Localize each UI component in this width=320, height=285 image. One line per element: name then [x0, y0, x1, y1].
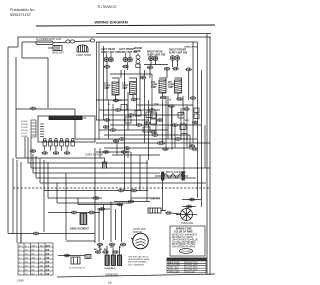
svg-text:20A: 20A	[46, 256, 50, 259]
svg-text:UNIT: UNIT	[122, 87, 128, 90]
svg-text:1999: 1999	[17, 279, 24, 283]
svg-text:BU: BU	[32, 273, 35, 275]
svg-text:200°C MINIMUM: 200°C MINIMUM	[128, 264, 144, 266]
svg-text:15A: 15A	[46, 268, 50, 271]
svg-text:UNIT: UNIT	[104, 87, 110, 90]
svg-text:WIRING CODE: WIRING CODE	[176, 229, 192, 231]
svg-text:OVEN FAN: OVEN FAN	[181, 222, 193, 225]
svg-text:BR: BR	[32, 269, 35, 271]
svg-text:GROUND: GROUND	[182, 251, 192, 253]
svg-text:MUST WITHSTAND: MUST WITHSTAND	[128, 261, 147, 264]
svg-text:SW: SW	[40, 245, 43, 247]
svg-text:P8 WH: P8 WH	[21, 124, 28, 126]
svg-text:SURF UNIT SW: SURF UNIT SW	[169, 51, 188, 54]
svg-text:40W 120V: 40W 120V	[186, 271, 196, 273]
svg-text:BALLAST: BALLAST	[53, 51, 65, 55]
svg-text:OR: OR	[32, 261, 36, 263]
svg-text:40A: 40A	[46, 248, 50, 251]
svg-text:AMP: AMP	[46, 244, 51, 247]
svg-text:FLUORESCENT LMP: FLUORESCENT LMP	[36, 37, 62, 41]
svg-text:10: 10	[108, 281, 112, 285]
svg-text:THE INSULATION OF: THE INSULATION OF	[128, 256, 149, 259]
svg-text:15A: 15A	[46, 260, 50, 263]
svg-text:TL/7B/WCO: TL/7B/WCO	[97, 5, 117, 9]
svg-text:P4 BR: P4 BR	[21, 136, 28, 138]
svg-text:TOD: TOD	[154, 104, 159, 106]
svg-text:SW: SW	[40, 273, 43, 275]
svg-text:CONN BLK: CONN BLK	[104, 268, 116, 270]
svg-text:RD: RD	[32, 253, 36, 255]
svg-text:Publication No.: Publication No.	[10, 8, 36, 12]
svg-text:SW: SW	[40, 261, 43, 263]
svg-text:WIR: WIR	[32, 245, 37, 247]
svg-text:ZONE: ZONE	[134, 50, 141, 53]
svg-text:SW: SW	[40, 269, 43, 271]
svg-text:BK WH RD: BK WH RD	[94, 249, 107, 251]
svg-text:SW: SW	[40, 265, 43, 267]
svg-text:GN=GREEN PK=PINK: GN=GREEN PK=PINK	[172, 247, 196, 249]
svg-text:P6 OR: P6 OR	[21, 130, 28, 132]
svg-text:OVEN LAMP: OVEN LAMP	[168, 270, 180, 273]
svg-text:REPLACEMENT WIRE: REPLACEMENT WIRE	[128, 258, 150, 261]
svg-text:COLOR OF WIRE: COLOR OF WIRE	[174, 231, 193, 233]
svg-text:WIRING DIAGRAM: WIRING DIAGRAM	[95, 21, 128, 25]
svg-text:316080305: 316080305	[105, 273, 119, 277]
svg-text:5995271157: 5995271157	[10, 13, 31, 17]
svg-text:15A: 15A	[46, 272, 50, 275]
svg-text:BAKE ELEMENT: BAKE ELEMENT	[70, 227, 89, 230]
svg-text:P9 BK: P9 BK	[21, 121, 28, 123]
svg-text:OVEN SENSOR: OVEN SENSOR	[85, 154, 104, 157]
svg-text:40A: 40A	[46, 252, 50, 255]
svg-text:RLY: RLY	[119, 100, 124, 102]
svg-text:LINE BRK: LINE BRK	[150, 199, 161, 201]
svg-text:ELECTRONIC OVEN CONTROL: ELECTRONIC OVEN CONTROL	[50, 117, 87, 120]
svg-text:WH: WH	[32, 257, 36, 259]
svg-text:15A: 15A	[46, 264, 50, 267]
svg-text:P7 RD: P7 RD	[21, 127, 28, 129]
svg-text:UNIT: UNIT	[168, 86, 174, 89]
svg-text:P5 GY: P5 GY	[21, 133, 28, 135]
svg-text:OVEN LP SW: OVEN LP SW	[184, 47, 197, 49]
svg-text:DOOR SWITCH: DOOR SWITCH	[69, 267, 85, 269]
svg-text:LAMP XFMR: LAMP XFMR	[76, 53, 91, 57]
